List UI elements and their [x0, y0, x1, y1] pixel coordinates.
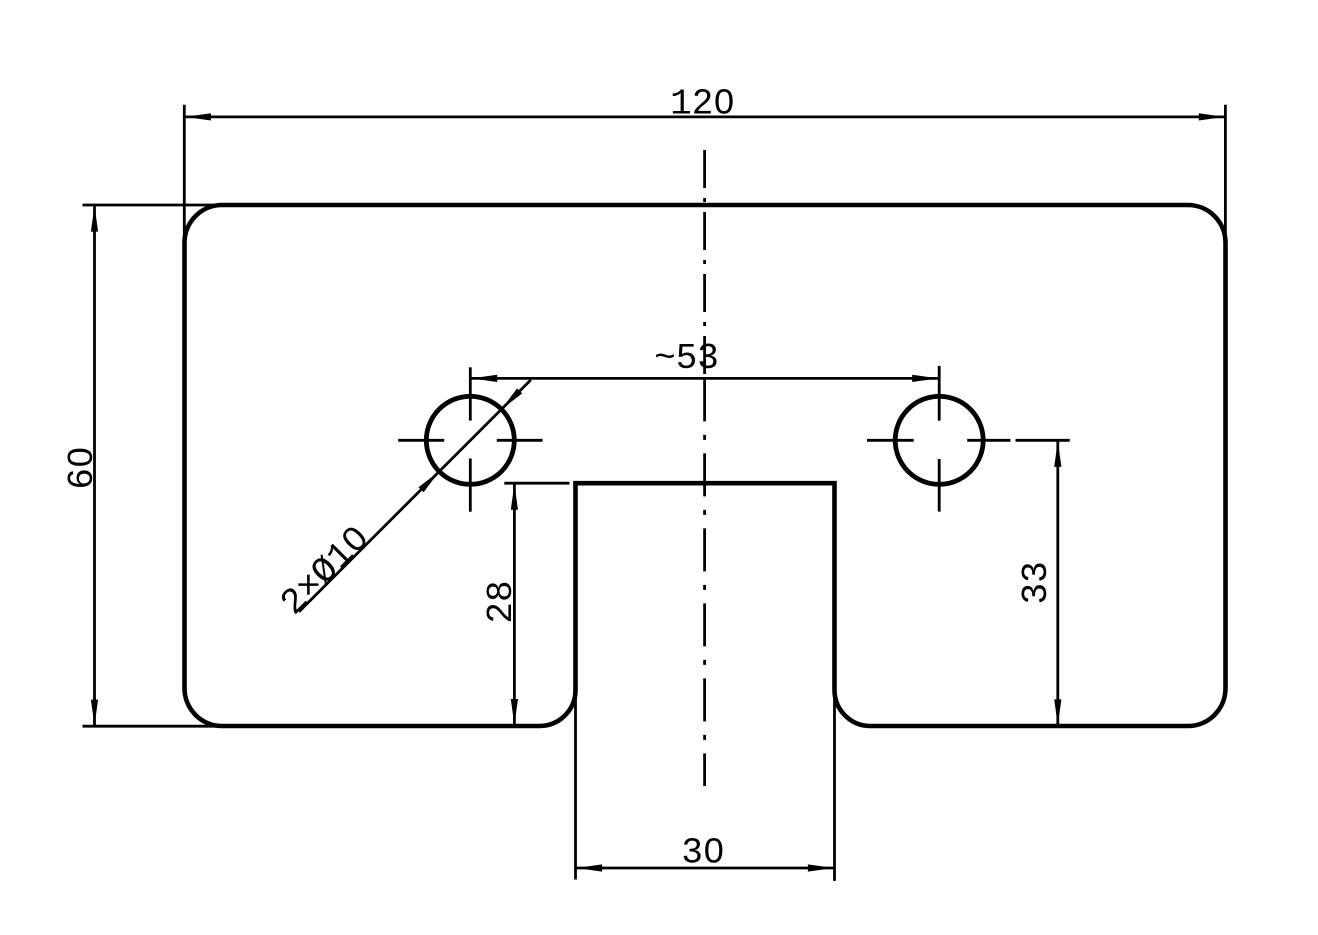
hole left [426, 396, 514, 484]
svg-text:28: 28 [481, 580, 522, 623]
svg-text:60: 60 [62, 446, 103, 489]
dim 33 [967, 440, 1069, 726]
hole left centermark [398, 367, 542, 511]
dim 28 [504, 483, 569, 725]
part outline: 120x60 plate with bottom notch [184, 205, 1225, 726]
dim 120 [184, 105, 1225, 243]
centerline vertical (part axis) [703, 150, 706, 378]
svg-text:33: 33 [1016, 561, 1057, 604]
dim 30 [576, 692, 835, 881]
dim ~53 [471, 377, 938, 380]
white patches hiding Liberation Mono dotted-zero centers [76, 98, 727, 854]
hole right centermark [867, 366, 939, 512]
svg-text:~53: ~53 [654, 338, 719, 379]
dim 60 [83, 205, 225, 726]
hole right [895, 396, 983, 484]
svg-text:30: 30 [681, 833, 724, 874]
leader 2xD10 [299, 380, 531, 612]
